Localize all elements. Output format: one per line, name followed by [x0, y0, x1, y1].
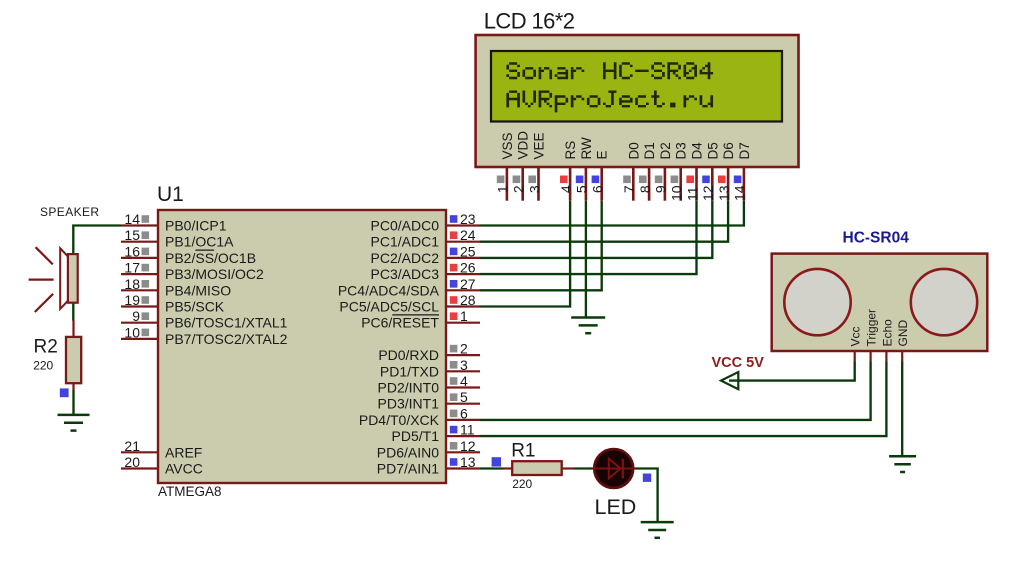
svg-text:VCC 5V: VCC 5V — [712, 355, 765, 371]
svg-text:VEE: VEE — [532, 132, 547, 159]
svg-text:VDD: VDD — [516, 131, 531, 160]
svg-text:VSS: VSS — [500, 132, 515, 159]
svg-text:D3: D3 — [674, 142, 689, 159]
svg-text:3: 3 — [526, 185, 542, 193]
svg-text:3: 3 — [460, 357, 468, 373]
svg-text:D1: D1 — [642, 142, 657, 159]
svg-text:PB1/OC1A: PB1/OC1A — [165, 234, 234, 250]
svg-text:U1: U1 — [157, 183, 184, 206]
svg-text:21: 21 — [124, 438, 140, 454]
svg-text:PD1/TXD: PD1/TXD — [380, 363, 439, 379]
svg-text:PC5/ADC5/SCL: PC5/ADC5/SCL — [339, 299, 439, 315]
svg-text:PC0/ADC0: PC0/ADC0 — [371, 218, 440, 234]
svg-text:24: 24 — [460, 227, 476, 243]
svg-text:D2: D2 — [658, 142, 673, 159]
svg-text:14: 14 — [124, 211, 140, 227]
svg-text:220: 220 — [512, 477, 532, 491]
svg-text:9: 9 — [132, 308, 140, 324]
svg-text:5: 5 — [460, 389, 468, 405]
svg-text:LED: LED — [595, 495, 637, 519]
svg-text:PB3/MOSI/OC2: PB3/MOSI/OC2 — [165, 266, 264, 282]
svg-text:PD7/AIN1: PD7/AIN1 — [377, 461, 439, 477]
svg-text:PB6/TOSC1/XTAL1: PB6/TOSC1/XTAL1 — [165, 315, 288, 331]
svg-text:PC4/ADC4/SDA: PC4/ADC4/SDA — [338, 282, 440, 298]
svg-text:16: 16 — [124, 243, 140, 259]
svg-text:10: 10 — [124, 324, 140, 340]
svg-text:25: 25 — [460, 243, 476, 259]
svg-text:2: 2 — [511, 185, 527, 193]
svg-text:15: 15 — [124, 227, 140, 243]
svg-text:PD4/T0/XCK: PD4/T0/XCK — [359, 412, 440, 428]
svg-text:D5: D5 — [705, 142, 720, 159]
svg-text:SPEAKER: SPEAKER — [40, 205, 100, 219]
svg-text:R2: R2 — [34, 337, 58, 358]
svg-text:PB4/MISO: PB4/MISO — [165, 282, 231, 298]
svg-text:220: 220 — [33, 359, 53, 373]
svg-text:E: E — [595, 150, 610, 159]
svg-text:6: 6 — [460, 405, 468, 421]
svg-text:PB2/SS/OC1B: PB2/SS/OC1B — [165, 250, 256, 266]
svg-text:4: 4 — [460, 373, 468, 389]
svg-text:14: 14 — [732, 185, 748, 201]
svg-text:PC3/ADC3: PC3/ADC3 — [371, 266, 440, 282]
svg-text:5: 5 — [574, 185, 590, 193]
svg-text:PB7/TOSC2/XTAL2: PB7/TOSC2/XTAL2 — [165, 331, 288, 347]
svg-text:Vcc: Vcc — [849, 326, 863, 346]
svg-text:10: 10 — [669, 185, 685, 201]
svg-text:R1: R1 — [511, 441, 535, 462]
svg-text:PD2/INT0: PD2/INT0 — [378, 380, 440, 396]
svg-text:PD5/T1: PD5/T1 — [392, 428, 440, 444]
svg-text:17: 17 — [124, 260, 140, 276]
svg-text:1: 1 — [495, 185, 511, 193]
svg-text:12: 12 — [700, 185, 716, 201]
svg-text:27: 27 — [460, 276, 476, 292]
svg-text:D6: D6 — [721, 142, 736, 159]
svg-text:RW: RW — [579, 137, 594, 160]
svg-text:D7: D7 — [737, 142, 752, 159]
svg-text:HC-SR04: HC-SR04 — [843, 230, 910, 247]
svg-text:18: 18 — [124, 276, 140, 292]
svg-text:Trigger: Trigger — [865, 309, 879, 347]
svg-text:2: 2 — [460, 341, 468, 357]
svg-text:11: 11 — [460, 422, 475, 438]
svg-text:PD6/AIN0: PD6/AIN0 — [377, 444, 439, 460]
svg-text:28: 28 — [460, 292, 476, 308]
svg-text:ATMEGA8: ATMEGA8 — [158, 484, 222, 499]
svg-text:PD3/INT1: PD3/INT1 — [378, 396, 440, 412]
svg-text:23: 23 — [460, 211, 476, 227]
svg-text:13: 13 — [460, 454, 476, 470]
svg-text:GND: GND — [896, 320, 910, 347]
svg-text:4: 4 — [558, 185, 574, 193]
svg-text:19: 19 — [124, 292, 140, 308]
svg-text:PC6/RESET: PC6/RESET — [361, 315, 439, 331]
svg-text:PD0/RXD: PD0/RXD — [378, 347, 439, 363]
svg-text:D4: D4 — [690, 142, 705, 160]
svg-text:PB5/SCK: PB5/SCK — [165, 299, 225, 315]
svg-text:11: 11 — [684, 186, 700, 201]
svg-text:13: 13 — [716, 185, 732, 201]
svg-text:D0: D0 — [626, 142, 641, 159]
svg-text:AVCC: AVCC — [165, 461, 203, 477]
svg-text:20: 20 — [124, 454, 140, 470]
svg-text:7: 7 — [621, 185, 637, 193]
svg-text:PC1/ADC1: PC1/ADC1 — [371, 234, 440, 250]
svg-text:LCD 16*2: LCD 16*2 — [484, 8, 575, 33]
svg-text:6: 6 — [590, 185, 606, 193]
svg-text:RS: RS — [563, 141, 578, 160]
svg-text:AREF: AREF — [165, 444, 202, 460]
svg-text:Echo: Echo — [880, 319, 894, 347]
svg-text:1: 1 — [460, 308, 468, 324]
svg-text:9: 9 — [653, 185, 669, 193]
svg-text:PB0/ICP1: PB0/ICP1 — [165, 218, 227, 234]
svg-text:12: 12 — [460, 438, 476, 454]
svg-text:26: 26 — [460, 260, 476, 276]
svg-text:8: 8 — [637, 185, 653, 193]
svg-text:PC2/ADC2: PC2/ADC2 — [371, 250, 440, 266]
